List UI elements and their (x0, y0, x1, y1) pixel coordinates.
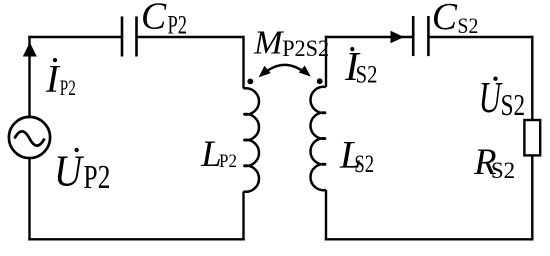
wire right-loop left upper (325, 36, 327, 87)
current arrow I_S2 (391, 31, 405, 44)
svg-text:S2: S2 (356, 62, 378, 89)
label C_P2 (141, 0, 187, 40)
svg-text:S2: S2 (354, 149, 374, 178)
label I_P2 (45, 57, 76, 100)
label C_S2 (432, 0, 479, 38)
current arrow I_P2 (23, 43, 37, 57)
svg-text:I: I (45, 57, 61, 100)
label M_P2S2 (253, 24, 329, 62)
svg-text:P2: P2 (168, 11, 188, 40)
svg-text:S2: S2 (491, 158, 515, 183)
svg-text:P2: P2 (83, 159, 110, 196)
svg-text:P2: P2 (60, 75, 76, 100)
wire right upper (corner to resistor) (531, 36, 533, 120)
wire top of left loop (capacitor to corner) (137, 36, 244, 38)
wire inductor branch upper (242, 36, 244, 89)
AC source U_P2 (9, 117, 50, 158)
wire top of right loop (left segment) (325, 36, 413, 38)
inductor L_P2 (244, 88, 260, 191)
capacitor C_P2 (122, 16, 137, 56)
svg-text:U: U (479, 73, 503, 122)
label L_P2 (200, 133, 237, 174)
svg-text:P2S2: P2S2 (282, 36, 329, 62)
wire bottom of left loop (28, 238, 244, 240)
svg-text:C: C (141, 0, 167, 38)
wire left upper (source to top-left corner) (28, 36, 30, 117)
resistor R_S2 (524, 120, 540, 155)
capacitor C_S2 (413, 16, 428, 56)
svg-text:C: C (432, 0, 458, 38)
svg-text:S2: S2 (457, 13, 478, 38)
svg-text:P2: P2 (219, 151, 237, 172)
wire inductor branch lower (242, 192, 244, 241)
svg-text:S2: S2 (501, 87, 525, 122)
wire left lower (source to bottom corner) (28, 158, 30, 240)
mutual coupling arrow M_P2S2 (259, 65, 311, 77)
label U_S2 (479, 73, 525, 122)
wire right-loop left lower (325, 190, 327, 241)
polarity dot left (247, 79, 253, 85)
label R_S2 (473, 141, 515, 183)
wire top of right loop (right segment) (428, 36, 533, 38)
wire bottom of right loop (325, 238, 534, 240)
label I_S2 (344, 43, 377, 89)
wire right lower (resistor to bottom corner) (531, 155, 533, 240)
wire top-left segment (28, 36, 122, 38)
svg-text:U: U (54, 145, 85, 195)
label L_S2 (339, 134, 374, 178)
label U_P2 (54, 145, 110, 196)
inductor L_S2 (310, 87, 326, 190)
polarity dot right (317, 78, 323, 84)
svg-text:M: M (253, 24, 285, 62)
